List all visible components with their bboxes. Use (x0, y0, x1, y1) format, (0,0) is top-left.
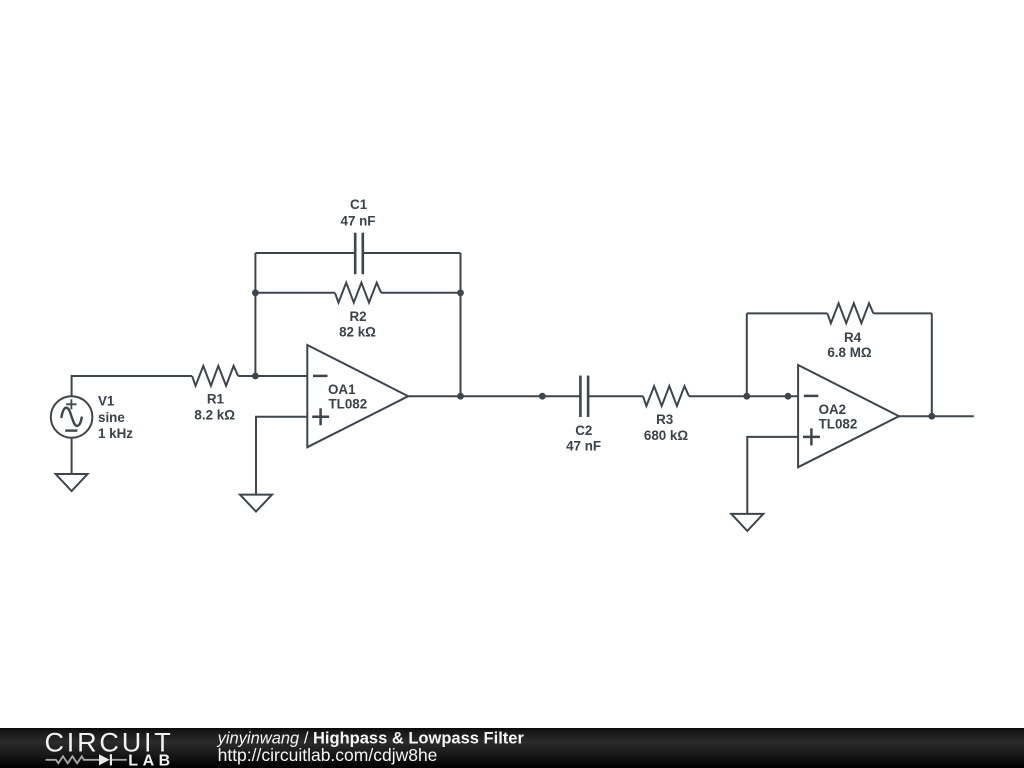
wire R2 left lead (255, 292, 335, 294)
node junction feedback right / R2 (457, 289, 464, 296)
svg-text:LAB: LAB (128, 752, 174, 768)
wire C1 right lead (363, 252, 461, 254)
svg-text:C1: C1 (350, 197, 368, 212)
svg-text:680 kΩ: 680 kΩ (644, 428, 689, 443)
svg-text:C2: C2 (575, 423, 592, 438)
svg-text:8.2 kΩ: 8.2 kΩ (194, 407, 235, 422)
node junction R3 / OA2 feedback (743, 393, 750, 400)
node wire joint (539, 393, 546, 400)
ground below OA2 plus input (731, 514, 763, 531)
svg-text:6.8 MΩ: 6.8 MΩ (827, 345, 871, 360)
wire R4 right lead (873, 312, 931, 314)
node junction OA2 output / feedback (928, 413, 935, 420)
svg-text:47 nF: 47 nF (566, 438, 601, 453)
wire R1 to OA1 minus input (238, 375, 307, 377)
wire OA1 output (408, 395, 580, 397)
svg-text:1 kHz: 1 kHz (98, 426, 133, 441)
capacitor C1 (355, 233, 363, 275)
svg-text:OA2: OA2 (819, 402, 847, 417)
svg-text:TL082: TL082 (329, 396, 368, 411)
op-amp OA2 (798, 365, 899, 467)
wire R4 left lead (747, 312, 828, 314)
wire V1 top to R1 (72, 376, 193, 397)
ground below OA1 plus input (240, 495, 272, 512)
svg-text:47 nF: 47 nF (341, 214, 376, 229)
svg-text:R1: R1 (207, 391, 225, 406)
logo resistor-diode glyph (46, 756, 127, 763)
svg-text:TL082: TL082 (819, 417, 858, 432)
resistor R2 (335, 283, 381, 303)
svg-text:R3: R3 (656, 412, 673, 427)
resistor R3 (643, 386, 689, 406)
wire V1 bottom (71, 438, 73, 474)
op-amp OA1 (307, 345, 408, 447)
svg-text:http://circuitlab.com/cdjw8he: http://circuitlab.com/cdjw8he (218, 745, 438, 765)
wire OA1 plus input (256, 417, 307, 495)
resistor R4 (827, 303, 873, 323)
wire OA2 feedback right vertical (931, 313, 933, 416)
wire OA2 feedback left vertical (746, 313, 748, 396)
wire C2 to R3 (588, 395, 643, 397)
wire feedback right vertical (460, 253, 462, 396)
voltage source V1 (51, 396, 93, 438)
svg-text:R2: R2 (349, 309, 366, 324)
wire feedback left vertical (254, 253, 256, 376)
node junction OA1 output / feedback (457, 393, 464, 400)
footer bar (0, 728, 1024, 768)
svg-text:V1: V1 (98, 393, 115, 408)
wire OA2 plus input (747, 437, 798, 514)
ground below V1 (56, 474, 88, 491)
capacitor C2 (580, 376, 588, 417)
resistor R1 (192, 366, 238, 386)
node wire joint at OA2 input (785, 393, 792, 400)
wire R2 right lead (381, 292, 460, 294)
svg-text:sine: sine (98, 410, 125, 425)
wire C1 left lead (255, 252, 355, 254)
wire OA2 output (899, 415, 974, 417)
node junction at R1/feedback (252, 373, 259, 380)
svg-text:82 kΩ: 82 kΩ (339, 324, 376, 339)
svg-text:R4: R4 (844, 330, 862, 345)
node junction feedback left / R2 (252, 289, 259, 296)
wire R3 to OA2 minus input (689, 395, 798, 397)
svg-text:OA1: OA1 (328, 382, 356, 397)
